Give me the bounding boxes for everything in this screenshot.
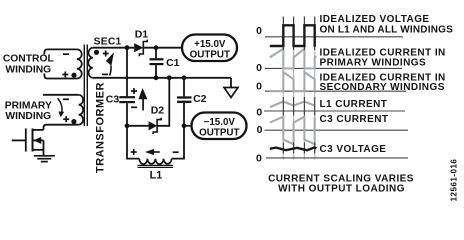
svg-text:C2: C2 [193, 93, 207, 105]
svg-text:C3 CURRENT: C3 CURRENT [320, 114, 389, 125]
svg-text:12561-016: 12561-016 [450, 159, 459, 202]
primary winding T1B [43, 95, 83, 130]
axis row 1 [256, 25, 403, 37]
svg-text:D2: D2 [151, 105, 165, 117]
wire: D1 cathode to +15V output [143, 47, 182, 49]
C3 current arrow (up) [138, 88, 147, 111]
diode D2 (schottky) [149, 118, 162, 134]
svg-text:C3 VOLTAGE: C3 VOLTAGE [320, 144, 387, 155]
axis row 3 [256, 81, 406, 93]
trace: C3 current (gray) [270, 117, 315, 145]
node: D1 cathode / C1 [154, 45, 159, 50]
svg-text:PRIMARY WINDINGS: PRIMARY WINDINGS [320, 58, 427, 69]
inductor L1 [127, 126, 184, 164]
C3 polarity marks [131, 88, 137, 107]
svg-text:SEC1: SEC1 [94, 36, 122, 47]
svg-text:OUTPUT: OUTPUT [190, 49, 230, 60]
svg-text:0: 0 [257, 124, 263, 136]
ground [34, 156, 55, 162]
control winding T1A [44, 49, 81, 78]
svg-text:D1: D1 [135, 28, 149, 40]
L1 core lines [138, 165, 174, 167]
axis row 5 [257, 124, 408, 136]
primary winding callout arrow [58, 98, 65, 117]
SEC1 current arrow [106, 52, 114, 75]
trace: idealized voltage square wave (black) [270, 25, 315, 47]
svg-text:0: 0 [256, 106, 262, 118]
row6 dark tick marks [283, 143, 314, 154]
svg-text:PRIMARY: PRIMARY [5, 101, 52, 112]
control winding label [3, 54, 54, 76]
caption [268, 174, 414, 195]
svg-text:ON L1 AND ALL WINDINGS: ON L1 AND ALL WINDINGS [320, 25, 454, 36]
svg-text:SECONDARY WINDINGS: SECONDARY WINDINGS [320, 82, 445, 93]
svg-text:0: 0 [256, 152, 262, 164]
trace: L1 current (gray) [270, 102, 315, 108]
gridline t2 [293, 17, 295, 160]
trace: primary winding current (gray) [270, 49, 317, 69]
row4 dark tick marks [283, 97, 314, 116]
svg-text:C1: C1 [166, 57, 180, 69]
primary winding label [5, 101, 52, 122]
capacitor C3 [119, 97, 135, 126]
gridline t4 [314, 17, 316, 160]
axis row 6 [256, 152, 408, 164]
svg-text:C3: C3 [106, 94, 120, 106]
axis row 2 [256, 62, 402, 74]
node A: C3 / D2 / L1 junction [125, 123, 130, 128]
wire: node B to -15V oval [184, 125, 192, 127]
svg-text:IDEALIZED VOLTAGE: IDEALIZED VOLTAGE [320, 14, 430, 25]
row1 dark tick marks [283, 17, 314, 51]
+15.0V output oval [182, 35, 237, 62]
node: C1 bottom on bus [154, 75, 159, 80]
waveform labels [320, 14, 454, 155]
node: D2 cathode branch on bus [167, 75, 172, 80]
Q1 arrow [34, 137, 42, 144]
node: SEC1 top / C3 junction [125, 45, 130, 50]
node B: C2 / L1 / -15V output [182, 123, 187, 128]
svg-text:TRANSFORMER: TRANSFORMER [95, 82, 107, 173]
svg-text:L1 CURRENT: L1 CURRENT [320, 99, 388, 110]
primary winding polarity marks [63, 99, 77, 124]
svg-text:WITH OUTPUT LOADING: WITH OUTPUT LOADING [278, 183, 405, 194]
svg-text:L1: L1 [150, 170, 163, 182]
svg-text:WINDING: WINDING [5, 111, 51, 122]
secondary winding SEC1 [88, 48, 93, 78]
trace: secondary winding current (gray) [270, 72, 315, 91]
L1 polarity marks [131, 149, 179, 155]
capacitor C2 [177, 78, 192, 126]
diode D1 (schottky) [134, 40, 147, 57]
wire: mid common bus [93, 77, 231, 79]
capacitor C1 [150, 48, 164, 78]
transformer core [84, 45, 87, 127]
trace: C3 voltage (black) [270, 147, 317, 150]
wire: SEC1 top to D1 [93, 47, 134, 49]
wire: node to C3 [126, 48, 128, 96]
node: C2 top on bus [182, 75, 187, 80]
svg-text:0: 0 [256, 81, 262, 93]
SEC1 polarity marks [94, 50, 109, 75]
wire: D2 cathode up to common bus [157, 78, 169, 126]
wire: node A to D2 anode [127, 125, 149, 127]
svg-text:CONTROL: CONTROL [3, 54, 54, 65]
-15.0V output oval [192, 113, 247, 140]
L1 current arrow (left) [145, 149, 160, 155]
control winding polarity marks [62, 54, 76, 78]
ground arrow (output common) [224, 78, 238, 98]
axis row 4 [256, 106, 405, 118]
svg-text:0: 0 [256, 25, 262, 37]
gridline t3 [303, 17, 305, 160]
svg-text:OUTPUT: OUTPUT [199, 127, 239, 138]
gridline t1 [282, 17, 284, 160]
transistor Q1 (MOSFET) [12, 128, 44, 155]
svg-text:0: 0 [256, 62, 262, 74]
